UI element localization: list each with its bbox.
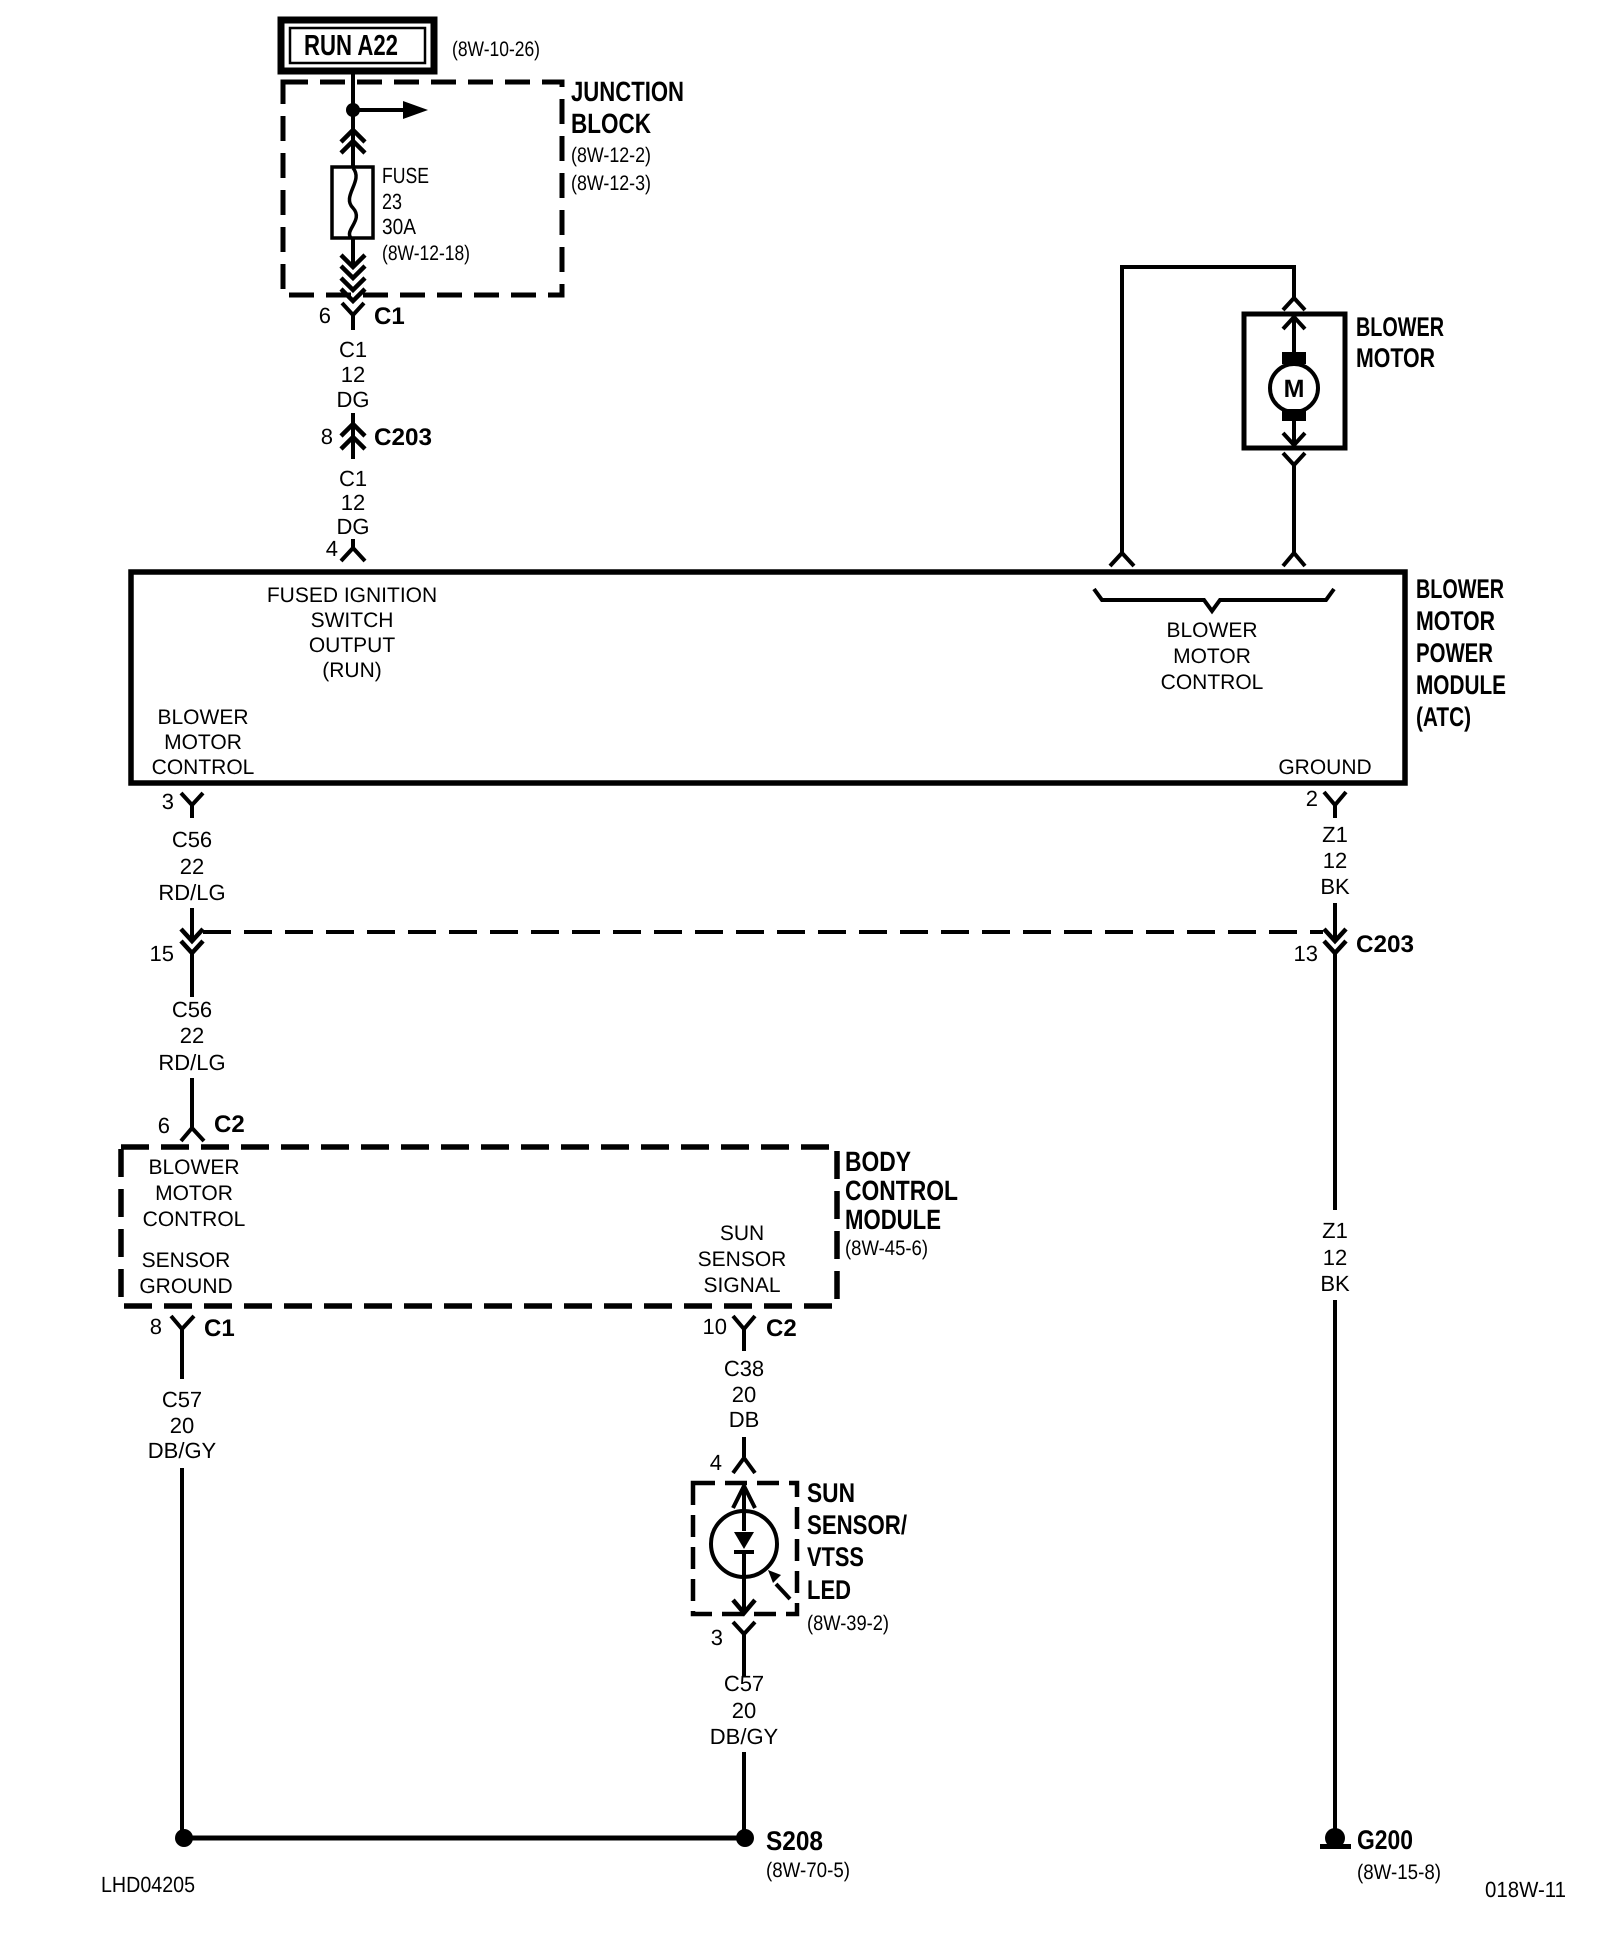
svg-text:(8W-12-3): (8W-12-3) [571,172,651,195]
splice node left [175,1829,193,1847]
svg-text:JUNCTION: JUNCTION [571,76,684,107]
svg-text:8: 8 [321,424,333,449]
wire from sun sensor to splice [742,1752,746,1838]
ground label G200 [1357,1825,1441,1884]
junction block label [571,76,684,195]
svg-text:SIGNAL: SIGNAL [703,1274,780,1297]
svg-text:CONTROL: CONTROL [143,1208,246,1231]
junction block box [283,82,562,295]
svg-text:MOTOR: MOTOR [1416,606,1495,636]
svg-text:C1: C1 [339,466,367,491]
motor brush top [1282,352,1306,364]
svg-text:3: 3 [162,789,174,814]
svg-text:20: 20 [732,1698,756,1723]
svg-text:C203: C203 [374,424,432,451]
LED diode symbol [734,1532,754,1549]
svg-text:GROUND: GROUND [1278,756,1371,779]
connector C1 pin 6 (female fork) [319,303,405,330]
connector chevron inside motor box top [1283,317,1305,329]
wire label C1 12 DG [337,466,370,539]
svg-text:FUSED IGNITION: FUSED IGNITION [267,584,437,607]
splice label S208 [766,1826,850,1882]
svg-text:G200: G200 [1357,1825,1413,1855]
pin 2 connector (module ground output) [1306,786,1346,818]
svg-text:MOTOR: MOTOR [1356,343,1435,373]
svg-text:POWER: POWER [1416,638,1493,668]
connector chevron above motor box [1283,298,1305,310]
wire to ground G200 [1333,1300,1337,1830]
connector chevron at module top (left branch) [1110,553,1134,566]
pin 6 male connector C2 [158,1111,245,1141]
svg-text:6: 6 [158,1113,170,1138]
svg-text:(8W-15-8): (8W-15-8) [1357,1861,1441,1884]
svg-text:C2: C2 [766,1315,797,1342]
svg-text:12: 12 [341,362,365,387]
wire into LED [742,1487,746,1531]
connector chevron at module top (right branch) [1283,553,1305,566]
svg-text:6: 6 [319,303,331,328]
svg-text:C38: C38 [724,1356,764,1381]
wire label C56 22 RD/LG (lower) [158,997,225,1075]
module label BODY CONTROL MODULE [845,1146,958,1260]
svg-text:LED: LED [807,1575,851,1605]
svg-text:23: 23 [382,189,402,214]
svg-text:MOTOR: MOTOR [164,731,242,754]
in-line connector C203 pin 15 (down) [150,929,203,997]
wire out of motor [1292,420,1296,444]
sun sensor label [807,1478,907,1635]
port label blower motor control (center) [1161,619,1264,694]
svg-text:(8W-45-6): (8W-45-6) [845,1237,928,1260]
svg-text:M: M [1284,375,1305,403]
pin 8 connector C1 [150,1314,235,1379]
in-line connector C203 pin 13 (down) [1294,929,1414,1210]
svg-text:GROUND: GROUND [139,1275,232,1298]
svg-text:4: 4 [326,536,338,561]
svg-text:SENSOR/: SENSOR/ [807,1510,907,1540]
svg-text:C56: C56 [172,997,212,1022]
connector chevron inside motor box bottom [1283,433,1305,445]
connector chevrons (junction block internal, up) [341,130,365,153]
svg-text:VTSS: VTSS [807,1542,864,1572]
svg-text:BLOWER: BLOWER [1356,312,1444,342]
svg-text:C57: C57 [724,1671,764,1696]
svg-text:OUTPUT: OUTPUT [309,634,396,657]
LED photodiode circle [711,1511,777,1577]
pin 10 connector C2 [703,1314,797,1351]
wire label Z1 12 BK (lower) [1320,1218,1350,1296]
svg-text:BLOWER: BLOWER [148,1156,239,1179]
svg-text:MODULE: MODULE [845,1204,941,1235]
svg-text:C1: C1 [339,337,367,362]
fuse label [382,163,470,265]
svg-text:LHD04205: LHD04205 [101,1872,195,1897]
wire label C1 12 DG [337,337,370,412]
svg-text:13: 13 [1294,941,1318,966]
wire label C56 22 RD/LG [158,827,225,905]
svg-text:30A: 30A [382,214,416,239]
pin 4 male connector into module [326,536,365,561]
svg-text:DB: DB [729,1407,760,1432]
svg-text:12: 12 [341,490,365,515]
blower motor box [1244,314,1345,448]
svg-text:SWITCH: SWITCH [311,609,394,632]
svg-text:BK: BK [1320,874,1350,899]
svg-text:2: 2 [1306,786,1318,811]
motor brush bottom [1282,409,1306,421]
wire label C57 20 DB/GY (right) [710,1671,779,1749]
wire into C203 pin 15 [190,908,194,941]
connector chevron at sun sensor bottom [733,1600,755,1613]
wire top branch [1120,265,1296,269]
svg-text:BK: BK [1320,1271,1350,1296]
svg-text:22: 22 [180,1023,204,1048]
svg-text:DG: DG [337,387,370,412]
svg-text:DG: DG [337,514,370,539]
svg-text:C1: C1 [204,1315,235,1342]
blower motor power module box (ATC) [131,572,1405,783]
svg-text:RUN A22: RUN A22 [304,30,398,62]
svg-text:(ATC): (ATC) [1416,702,1471,732]
svg-text:018W-11: 018W-11 [1485,1877,1566,1902]
svg-text:3: 3 [711,1625,723,1650]
ground symbol G200 [1320,1828,1351,1849]
svg-text:4: 4 [710,1450,722,1475]
svg-text:SUN: SUN [807,1478,855,1508]
splice S208 wire [184,1836,745,1841]
wire into C203 pin 13 [1333,903,1337,941]
pin 4 male connector into sun sensor [710,1437,755,1475]
wire out of LED [742,1552,746,1613]
wire from RUN A22 through junction block to fuse [351,71,355,168]
svg-text:FUSE: FUSE [382,163,429,188]
svg-text:C57: C57 [162,1387,202,1412]
connector chevrons at junction block exit (down) [341,255,365,301]
svg-text:DB/GY: DB/GY [148,1438,217,1463]
svg-text:(8W-12-18): (8W-12-18) [382,242,470,265]
port label sensor ground [139,1249,232,1298]
svg-text:CONTROL: CONTROL [152,756,255,779]
svg-text:10: 10 [703,1314,727,1339]
wire from motor to module [1292,465,1296,553]
wire right branch down to motor [1292,265,1296,298]
svg-text:BLOWER: BLOWER [157,706,248,729]
wire label C38 20 DB [724,1356,764,1432]
svg-text:20: 20 [170,1413,194,1438]
LED light arrow [768,1570,790,1599]
svg-text:22: 22 [180,854,204,879]
svg-text:MOTOR: MOTOR [155,1182,233,1205]
svg-text:RD/LG: RD/LG [158,1050,225,1075]
svg-text:C1: C1 [374,303,405,330]
svg-text:MODULE: MODULE [1416,670,1506,700]
svg-text:BLOWER: BLOWER [1166,619,1257,642]
connector chevron at sun sensor top [733,1486,755,1508]
pin 3 connector below sun sensor [711,1622,755,1676]
pin 3 connector (module left output) [162,789,203,818]
dashed wire C203 junction line [203,930,1323,934]
port label sun sensor signal [698,1222,787,1297]
svg-text:SUN: SUN [720,1222,764,1245]
wire label Z1 12 BK (upper) [1320,822,1350,899]
power source box RUN A22 [281,20,434,71]
wire left branch to blower motor [1120,267,1124,553]
svg-text:CONTROL: CONTROL [845,1175,958,1206]
svg-text:(8W-39-2): (8W-39-2) [807,1612,889,1635]
label BLOWER MOTOR [1356,312,1444,373]
port label fused ignition switch output (run) [267,584,437,682]
wire from BCM pin 8 to splice [180,1468,184,1838]
svg-text:C2: C2 [214,1111,245,1138]
port label blower motor control (BCM) [143,1156,246,1231]
body control module box [121,1147,837,1306]
svg-text:S208: S208 [766,1826,823,1856]
wire below fuse [351,238,355,266]
svg-text:8: 8 [150,1314,162,1339]
wire to BCM pin 6 [190,1078,194,1128]
svg-text:(8W-70-5): (8W-70-5) [766,1859,850,1882]
svg-text:MOTOR: MOTOR [1173,645,1251,668]
svg-text:RD/LG: RD/LG [158,880,225,905]
splice node S208 [736,1829,754,1847]
svg-text:12: 12 [1323,848,1347,873]
svg-text:SENSOR: SENSOR [698,1248,787,1271]
svg-text:CONTROL: CONTROL [1161,671,1264,694]
svg-text:Z1: Z1 [1322,822,1348,847]
motor M1 circle [1270,364,1318,412]
svg-text:Z1: Z1 [1322,1218,1348,1243]
arrow wire to other circuits [353,101,428,119]
svg-text:12: 12 [1323,1245,1347,1270]
svg-text:(8W-12-2): (8W-12-2) [571,144,651,167]
svg-text:C203: C203 [1356,931,1414,958]
svg-text:(RUN): (RUN) [322,659,381,682]
svg-text:BLOCK: BLOCK [571,108,651,139]
module label BLOWER MOTOR POWER MODULE (ATC) [1416,574,1506,732]
svg-text:BLOWER: BLOWER [1416,574,1504,604]
svg-text:BODY: BODY [845,1146,911,1177]
svg-text:DB/GY: DB/GY [710,1724,779,1749]
svg-text:C56: C56 [172,827,212,852]
connector chevron below motor box [1283,453,1305,465]
svg-text:SENSOR: SENSOR [142,1249,231,1272]
node splice dot [346,103,360,117]
brace blower motor control [1094,589,1334,611]
svg-text:(8W-10-26): (8W-10-26) [452,38,540,61]
sun sensor dashed box [693,1483,797,1614]
svg-text:15: 15 [150,941,174,966]
wire label C57 20 DB/GY [148,1387,217,1463]
fuse 23 30A [332,167,373,238]
svg-text:20: 20 [732,1382,756,1407]
in-line connector C203 pin 8 (male, up) [321,413,432,459]
wire into motor [1292,317,1296,353]
port label blower motor control (left) [152,706,255,779]
